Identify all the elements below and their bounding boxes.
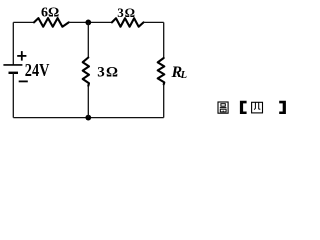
battery V1 long plate	[3, 64, 22, 66]
battery V1 short plate	[9, 72, 19, 74]
resistor RL zigzag vertical	[158, 58, 165, 84]
caption right lenticular bracket	[279, 101, 286, 114]
resistor R 6ohm zigzag	[34, 18, 69, 27]
caption character SI (four)	[252, 102, 263, 113]
svg-text:24V: 24V	[25, 60, 50, 80]
node junction top dot	[85, 20, 91, 26]
wire left vertical lower	[12, 73, 14, 118]
wire left vertical upper	[12, 22, 14, 64]
wire middle vertical upper	[87, 22, 89, 57]
battery minus sign	[19, 80, 28, 82]
wire bottom horizontal	[13, 117, 163, 119]
caption character TU (figure)	[218, 102, 228, 113]
node junction bottom dot	[85, 115, 91, 121]
wire top-right horizontal	[144, 21, 164, 23]
wire middle vertical lower	[87, 86, 89, 118]
resistor 3ohm top zigzag	[112, 18, 144, 27]
svg-text:6Ω: 6Ω	[41, 5, 59, 20]
caption left lenticular bracket	[240, 101, 247, 114]
battery plus sign	[17, 51, 26, 61]
svg-text:3Ω: 3Ω	[117, 5, 136, 20]
wire right vertical lower	[163, 84, 165, 117]
resistor 3ohm middle zigzag vertical	[83, 58, 89, 86]
wire right vertical upper	[163, 22, 165, 58]
wire top-middle horizontal	[69, 21, 112, 23]
svg-text:L: L	[180, 70, 187, 81]
wire top-left horizontal	[13, 21, 34, 23]
svg-text:3Ω: 3Ω	[97, 64, 119, 80]
